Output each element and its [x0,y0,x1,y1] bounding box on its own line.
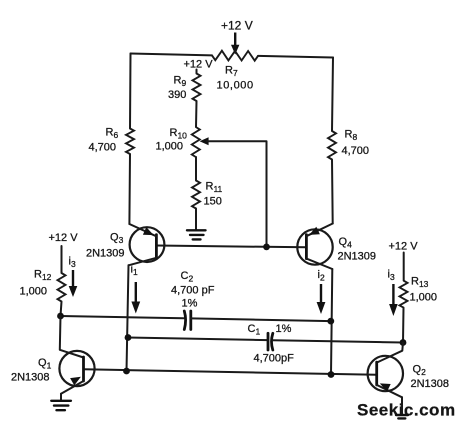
node: wire1 right junction [327,318,334,325]
capacitor C2 [184,311,191,330]
svg-text:2N1309: 2N1309 [86,248,125,260]
wire base Q3 to Q4 [156,246,306,248]
resistor R6 [126,129,134,155]
R11 labels [204,181,223,208]
wire Q1 collector up to node [60,316,84,358]
svg-text:R13: R13 [411,276,429,290]
current arrow i2 [317,269,326,314]
wire R12 bottom lead [61,302,62,317]
wire node R12/Q1 to C2 [61,316,184,318]
resistor R13 [400,281,408,308]
R12 labels [20,269,52,298]
C2 labels [171,270,215,310]
svg-text:150: 150 [204,196,222,208]
resistor R8 [328,131,336,160]
svg-text:4,700 pF: 4,700 pF [171,285,215,297]
node: R12/wire1 left junction [57,313,64,320]
R9 labels [168,75,186,102]
svg-text:1,000: 1,000 [20,286,48,298]
wire C2 to node at Q4 line [191,318,331,321]
capacitor C1 [268,333,273,350]
node: wire2 left junction [125,334,132,341]
R7 value labels [217,65,254,92]
svg-text:+12 V: +12 V [389,241,419,253]
wire R13 top lead [403,253,405,281]
resistor R9 [193,74,201,102]
transistor Q4 [297,224,332,270]
svg-text:+12 V: +12 V [184,59,214,71]
wire right rail lower [331,160,334,224]
wire left rail upper [129,54,132,129]
svg-text:4,700: 4,700 [89,142,117,154]
resistor R12 [58,273,66,302]
wire Q4 collector down [331,269,332,375]
Q2 labels [411,364,450,391]
node: wire3 left junction [123,368,130,375]
svg-text:2N1308: 2N1308 [411,378,450,390]
svg-text:Seekic.com: Seekic.com [357,401,456,420]
node: wire3 right junction [328,371,335,378]
wire right rail upper [332,58,333,132]
wire top-left segment [131,54,213,56]
Q3 labels [86,232,125,260]
svg-text:R6: R6 [106,127,119,141]
svg-text:R12: R12 [34,269,52,283]
svg-text:+12 V: +12 V [221,19,253,33]
svg-text:Q3: Q3 [110,232,124,246]
wire Q2 collector up to node [377,343,403,363]
svg-text:4,700: 4,700 [342,145,370,157]
+12V arrow to R7 wiper [231,33,239,55]
svg-text:1%: 1% [276,323,292,335]
wire Q3 collector down [127,265,129,371]
svg-text:+12 V: +12 V [49,232,79,244]
current arrow i3 (left) [69,256,78,298]
svg-text:4,700pF: 4,700pF [254,353,295,365]
R13 labels [410,276,438,304]
current arrow i3 (right) [388,269,398,317]
svg-text:1%: 1% [182,298,198,310]
svg-text:2N1308: 2N1308 [11,372,50,384]
wire R9-R10 [195,101,198,127]
svg-text:R11: R11 [206,181,223,195]
wire R11 to ground [195,209,197,230]
svg-text:Q2: Q2 [413,364,427,378]
svg-text:i3: i3 [69,256,76,270]
wire R13 bottom lead [402,308,405,343]
wire top-right segment [258,56,333,58]
current arrow i1 [131,264,141,314]
svg-text:C1: C1 [248,323,261,337]
ground (below R11) [187,230,206,239]
resistor R11 [192,181,200,209]
svg-text:Q1: Q1 [38,357,52,371]
transistor Q2 [368,356,403,414]
node: wire2 right junction (R13/Q2) [400,339,407,346]
transistor Q1 [59,351,94,400]
wire node to C1 [128,338,268,341]
svg-text:2N1309: 2N1309 [338,251,377,263]
Q1 labels [11,357,52,384]
svg-text:1,000: 1,000 [156,141,184,153]
svg-text:C2: C2 [181,270,194,284]
wire R12 top lead [61,246,63,273]
wire R9 top lead [196,70,198,74]
transistor Q3 [129,224,165,265]
R10 wiper arrow wire to node [200,137,267,247]
wire Q1 base to Q2 base [84,369,377,375]
Q4 labels [338,236,377,263]
wire left rail lower [128,154,131,224]
svg-text:i1: i1 [131,264,138,278]
potentiometer R7 [212,51,258,61]
svg-text:R7: R7 [225,65,238,79]
svg-text:i2: i2 [318,269,325,283]
svg-text:Q4: Q4 [339,236,353,250]
R6 labels [89,127,119,154]
svg-text:i3: i3 [388,269,395,283]
svg-text:R8: R8 [345,129,358,143]
wire R10-R11 [195,157,197,181]
ground (below Q2) [396,415,408,418]
node: wiper junction on base wire [263,244,270,251]
wire C1 to R13 node [273,340,403,342]
svg-text:R10: R10 [170,127,188,141]
C1 labels [248,323,295,365]
svg-text:R9: R9 [174,75,187,89]
svg-text:390: 390 [168,89,186,101]
potentiometer R10 [192,127,200,157]
svg-text:1,000: 1,000 [410,292,438,304]
R10 labels [156,127,188,153]
ground (below Q1) [51,401,71,410]
svg-text:10,000: 10,000 [217,80,254,92]
R8 labels [342,129,370,158]
